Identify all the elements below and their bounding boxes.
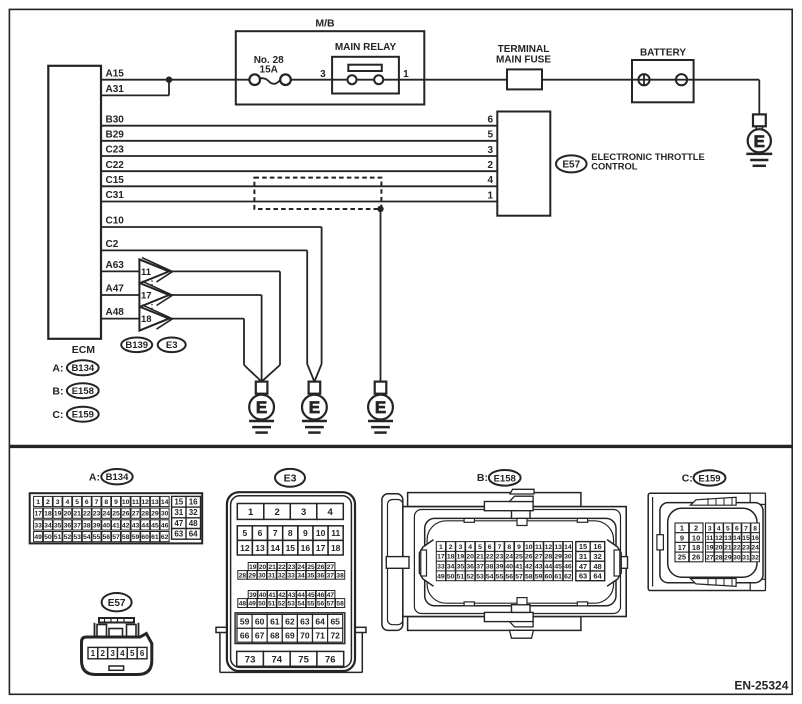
svg-text:23: 23 [93,511,101,518]
svg-text:62: 62 [285,616,295,626]
svg-text:9: 9 [114,499,118,506]
svg-text:10: 10 [692,533,700,542]
svg-text:17: 17 [316,543,326,553]
svg-text:M/B: M/B [315,18,335,30]
svg-text:21: 21 [269,564,277,571]
svg-text:12: 12 [141,499,149,506]
svg-text:2: 2 [274,507,279,518]
svg-text:C2: C2 [106,239,119,250]
svg-text:23: 23 [288,564,296,571]
svg-text:A63: A63 [106,260,125,271]
svg-text:MAIN RELAY: MAIN RELAY [335,42,397,53]
svg-text:A:: A: [52,362,63,374]
svg-text:36: 36 [317,572,325,579]
svg-text:40: 40 [259,592,267,599]
svg-text:11: 11 [331,528,340,538]
svg-text:26: 26 [525,554,533,561]
svg-text:9: 9 [517,544,521,551]
svg-text:66: 66 [240,630,250,640]
svg-text:A47: A47 [106,284,125,295]
svg-text:5: 5 [487,130,493,141]
svg-text:6: 6 [85,499,89,506]
svg-text:38: 38 [486,564,494,571]
svg-text:16: 16 [751,535,759,542]
svg-text:E: E [256,398,267,417]
svg-text:41: 41 [269,592,277,599]
svg-text:17: 17 [437,554,445,561]
svg-text:3: 3 [56,499,60,506]
svg-text:6: 6 [487,115,493,126]
svg-text:18: 18 [44,511,52,518]
svg-text:24: 24 [298,564,306,571]
svg-text:35: 35 [307,572,315,579]
svg-text:5: 5 [243,528,248,538]
svg-text:42: 42 [278,592,286,599]
svg-text:BATTERY: BATTERY [640,48,686,59]
svg-text:41: 41 [112,522,120,529]
svg-text:31: 31 [268,572,276,579]
svg-text:19: 19 [457,554,465,561]
svg-text:35: 35 [54,522,62,529]
svg-text:5: 5 [75,499,79,506]
svg-text:61: 61 [554,573,562,580]
svg-text:45: 45 [151,522,159,529]
svg-text:73: 73 [245,654,256,665]
svg-text:13: 13 [724,535,732,542]
svg-text:C10: C10 [106,216,125,227]
svg-text:30: 30 [161,511,169,518]
svg-text:33: 33 [437,564,445,571]
svg-text:B29: B29 [106,129,125,140]
svg-text:24: 24 [751,545,759,552]
svg-text:3: 3 [110,649,115,658]
svg-text:71: 71 [315,630,325,640]
svg-text:14: 14 [161,499,169,506]
svg-text:19: 19 [706,545,714,552]
svg-text:45: 45 [554,564,562,571]
svg-text:12: 12 [715,535,723,542]
svg-text:1: 1 [91,649,96,658]
svg-text:75: 75 [298,654,309,665]
svg-text:B30: B30 [106,114,125,125]
svg-text:54: 54 [297,600,305,607]
svg-text:E57: E57 [108,598,126,609]
svg-text:55: 55 [307,600,315,607]
svg-text:C31: C31 [106,190,125,201]
svg-text:46: 46 [564,564,572,571]
svg-text:7: 7 [273,528,278,538]
svg-text:A31: A31 [106,84,125,95]
svg-text:24: 24 [506,554,514,561]
svg-text:37: 37 [73,522,81,529]
svg-text:61: 61 [270,616,280,626]
svg-text:16: 16 [189,498,198,507]
svg-text:8: 8 [507,544,511,551]
svg-text:13: 13 [151,499,159,506]
svg-text:61: 61 [151,534,159,541]
svg-text:50: 50 [258,600,266,607]
svg-text:B:: B: [477,472,488,484]
svg-text:1: 1 [439,544,443,551]
svg-text:47: 47 [579,562,587,571]
svg-text:19: 19 [249,564,257,571]
svg-text:60: 60 [545,573,553,580]
svg-text:1: 1 [248,507,254,518]
svg-text:5: 5 [478,544,482,551]
svg-text:7: 7 [95,499,99,506]
svg-text:17: 17 [141,291,152,302]
svg-text:29: 29 [249,572,257,579]
svg-text:45: 45 [307,592,315,599]
svg-text:25: 25 [307,564,315,571]
svg-text:1: 1 [403,69,409,80]
svg-text:C:: C: [52,409,63,421]
svg-text:A48: A48 [106,307,125,318]
svg-text:26: 26 [692,553,700,562]
svg-text:42: 42 [525,564,533,571]
svg-text:27: 27 [706,554,714,561]
svg-text:32: 32 [751,554,759,561]
svg-text:39: 39 [496,564,504,571]
svg-text:64: 64 [593,572,602,581]
svg-text:2: 2 [449,544,453,551]
svg-text:18: 18 [141,314,152,325]
svg-text:10: 10 [122,499,130,506]
svg-text:43: 43 [288,592,296,599]
svg-text:7: 7 [498,544,502,551]
svg-text:32: 32 [278,572,286,579]
svg-text:59: 59 [132,534,140,541]
svg-text:B:: B: [52,385,63,397]
svg-text:B134: B134 [71,363,94,374]
svg-text:17: 17 [678,543,686,552]
svg-text:E159: E159 [72,410,94,421]
svg-text:37: 37 [476,564,484,571]
svg-text:69: 69 [285,630,295,640]
svg-text:36: 36 [466,564,474,571]
svg-text:30: 30 [564,554,572,561]
svg-text:4: 4 [468,544,472,551]
svg-text:55: 55 [93,534,101,541]
svg-text:16: 16 [593,542,601,551]
svg-text:46: 46 [317,592,325,599]
svg-text:8: 8 [753,525,757,532]
svg-text:48: 48 [239,600,247,607]
svg-text:36: 36 [64,522,72,529]
svg-text:60: 60 [255,616,265,626]
svg-text:27: 27 [132,511,140,518]
svg-text:27: 27 [327,564,335,571]
svg-text:23: 23 [496,554,504,561]
svg-text:15A: 15A [260,65,278,76]
svg-text:13: 13 [554,544,562,551]
svg-text:4: 4 [327,507,333,518]
svg-text:43: 43 [132,522,140,529]
svg-text:48: 48 [593,562,601,571]
svg-text:8: 8 [288,528,293,538]
svg-text:8: 8 [104,499,108,506]
svg-text:76: 76 [325,654,336,665]
svg-text:2: 2 [487,160,493,171]
svg-text:22: 22 [278,564,286,571]
svg-text:42: 42 [122,522,130,529]
svg-text:22: 22 [83,511,91,518]
svg-text:11: 11 [132,499,139,506]
svg-text:29: 29 [724,554,732,561]
svg-text:55: 55 [496,573,504,580]
svg-text:18: 18 [331,543,341,553]
svg-text:23: 23 [742,545,750,552]
svg-text:C15: C15 [106,175,125,186]
svg-text:49: 49 [34,534,42,541]
svg-text:31: 31 [174,508,183,517]
svg-text:C23: C23 [106,145,125,156]
svg-text:5: 5 [130,649,135,658]
svg-text:44: 44 [298,592,306,599]
svg-text:26: 26 [317,564,325,571]
svg-text:58: 58 [122,534,130,541]
svg-text:5: 5 [726,525,730,532]
svg-text:2: 2 [46,499,50,506]
svg-text:E158: E158 [494,473,516,484]
svg-text:3: 3 [459,544,463,551]
svg-text:4: 4 [66,499,70,506]
svg-text:B139: B139 [125,340,148,351]
svg-text:15: 15 [174,498,183,507]
svg-text:14: 14 [564,544,572,551]
svg-text:25: 25 [678,553,686,562]
svg-text:7: 7 [744,525,748,532]
svg-text:44: 44 [545,564,553,571]
svg-text:E57: E57 [562,160,580,171]
svg-text:39: 39 [93,522,101,529]
svg-text:64: 64 [315,616,325,626]
svg-text:1: 1 [487,190,493,201]
svg-text:TERMINAL: TERMINAL [498,44,550,55]
svg-text:43: 43 [535,564,543,571]
svg-text:33: 33 [34,522,42,529]
svg-text:29: 29 [554,554,562,561]
svg-text:24: 24 [103,511,111,518]
svg-text:3: 3 [708,525,712,532]
svg-text:6: 6 [488,544,492,551]
svg-text:11: 11 [706,535,713,542]
svg-text:13: 13 [255,543,265,553]
svg-text:34: 34 [297,572,305,579]
svg-text:41: 41 [515,564,523,571]
svg-text:31: 31 [579,552,587,561]
svg-text:15: 15 [579,542,587,551]
svg-text:37: 37 [327,572,335,579]
svg-text:57: 57 [112,534,120,541]
svg-text:46: 46 [161,522,169,529]
svg-text:3: 3 [301,507,306,518]
svg-text:6: 6 [258,528,263,538]
svg-text:25: 25 [112,511,120,518]
svg-text:38: 38 [336,572,344,579]
svg-text:39: 39 [249,592,257,599]
svg-text:31: 31 [742,554,750,561]
svg-text:15: 15 [742,535,750,542]
svg-text:4: 4 [487,175,493,186]
svg-text:21: 21 [724,545,732,552]
svg-text:ECM: ECM [72,344,96,356]
svg-text:10: 10 [525,544,533,551]
svg-text:20: 20 [715,545,723,552]
svg-text:50: 50 [44,534,52,541]
svg-text:E3: E3 [166,340,178,351]
svg-text:4: 4 [717,525,721,532]
svg-text:9: 9 [303,528,308,538]
svg-text:27: 27 [535,554,543,561]
svg-text:53: 53 [73,534,81,541]
svg-text:62: 62 [564,573,572,580]
svg-text:22: 22 [733,545,741,552]
svg-text:28: 28 [141,511,149,518]
svg-text:C22: C22 [106,160,125,171]
svg-text:58: 58 [525,573,533,580]
svg-text:56: 56 [506,573,514,580]
svg-text:28: 28 [545,554,553,561]
svg-text:E3: E3 [284,472,297,484]
svg-text:21: 21 [476,554,484,561]
svg-text:62: 62 [161,534,169,541]
svg-text:53: 53 [476,573,484,580]
svg-text:51: 51 [268,600,276,607]
svg-text:4: 4 [120,649,125,658]
svg-text:E: E [309,398,320,417]
svg-text:32: 32 [593,552,601,561]
svg-text:11: 11 [535,544,542,551]
svg-text:52: 52 [278,600,286,607]
svg-text:30: 30 [733,554,741,561]
svg-text:1: 1 [36,499,40,506]
svg-text:2: 2 [100,649,105,658]
svg-text:54: 54 [486,573,494,580]
svg-text:54: 54 [83,534,91,541]
svg-text:21: 21 [73,511,81,518]
svg-text:59: 59 [240,616,250,626]
svg-text:18: 18 [692,543,700,552]
svg-text:C:: C: [682,472,693,484]
svg-text:E: E [375,398,386,417]
svg-text:44: 44 [141,522,149,529]
svg-text:28: 28 [239,572,247,579]
svg-text:30: 30 [258,572,266,579]
svg-text:28: 28 [715,554,723,561]
svg-text:18: 18 [447,554,455,561]
svg-text:35: 35 [457,564,465,571]
svg-text:6: 6 [735,525,739,532]
svg-text:14: 14 [733,535,741,542]
svg-text:22: 22 [486,554,494,561]
svg-text:34: 34 [447,564,455,571]
svg-text:38: 38 [83,522,91,529]
svg-text:17: 17 [34,511,42,518]
svg-text:12: 12 [240,543,250,553]
svg-text:59: 59 [535,573,543,580]
svg-text:E159: E159 [698,473,720,484]
svg-text:MAIN FUSE: MAIN FUSE [496,55,551,66]
svg-text:B134: B134 [106,472,129,483]
svg-text:15: 15 [286,543,296,553]
svg-text:20: 20 [259,564,267,571]
svg-text:72: 72 [330,630,340,640]
svg-text:51: 51 [54,534,62,541]
svg-text:20: 20 [64,511,72,518]
svg-text:1: 1 [680,524,684,533]
svg-text:47: 47 [327,592,335,599]
svg-text:29: 29 [151,511,159,518]
svg-text:2: 2 [694,524,698,533]
svg-text:9: 9 [680,533,684,542]
svg-text:74: 74 [272,654,283,665]
svg-text:50: 50 [447,573,455,580]
svg-text:56: 56 [317,600,325,607]
svg-text:65: 65 [330,616,340,626]
svg-text:14: 14 [270,543,280,553]
svg-text:11: 11 [141,267,152,278]
svg-text:12: 12 [545,544,553,551]
svg-text:26: 26 [122,511,130,518]
svg-text:47: 47 [174,519,183,528]
svg-text:52: 52 [64,534,72,541]
svg-text:63: 63 [579,572,587,581]
svg-text:68: 68 [270,630,280,640]
svg-text:A15: A15 [106,68,125,79]
svg-text:EN-25324: EN-25324 [734,679,788,693]
svg-text:40: 40 [103,522,111,529]
svg-text:57: 57 [327,600,335,607]
svg-text:CONTROL: CONTROL [591,160,638,171]
svg-text:25: 25 [515,554,523,561]
svg-text:40: 40 [506,564,514,571]
svg-text:53: 53 [288,600,296,607]
svg-text:60: 60 [141,534,149,541]
svg-text:10: 10 [316,528,326,538]
svg-text:63: 63 [174,530,183,539]
svg-text:E158: E158 [72,386,94,397]
svg-text:19: 19 [54,511,62,518]
svg-text:E: E [754,132,765,151]
svg-text:56: 56 [103,534,111,541]
svg-text:67: 67 [255,630,265,640]
svg-text:70: 70 [300,630,310,640]
svg-text:49: 49 [249,600,257,607]
svg-text:34: 34 [44,522,52,529]
svg-text:57: 57 [515,573,523,580]
svg-text:20: 20 [466,554,474,561]
svg-text:33: 33 [288,572,296,579]
svg-text:6: 6 [140,649,145,658]
svg-text:A:: A: [89,471,100,483]
svg-text:3: 3 [487,145,493,156]
svg-text:49: 49 [437,573,445,580]
svg-text:58: 58 [336,600,344,607]
svg-text:16: 16 [301,543,311,553]
svg-text:52: 52 [466,573,474,580]
svg-text:64: 64 [189,530,198,539]
svg-text:32: 32 [189,508,198,517]
svg-text:3: 3 [320,69,326,80]
svg-text:48: 48 [189,519,198,528]
svg-text:51: 51 [457,573,465,580]
svg-text:63: 63 [300,616,310,626]
